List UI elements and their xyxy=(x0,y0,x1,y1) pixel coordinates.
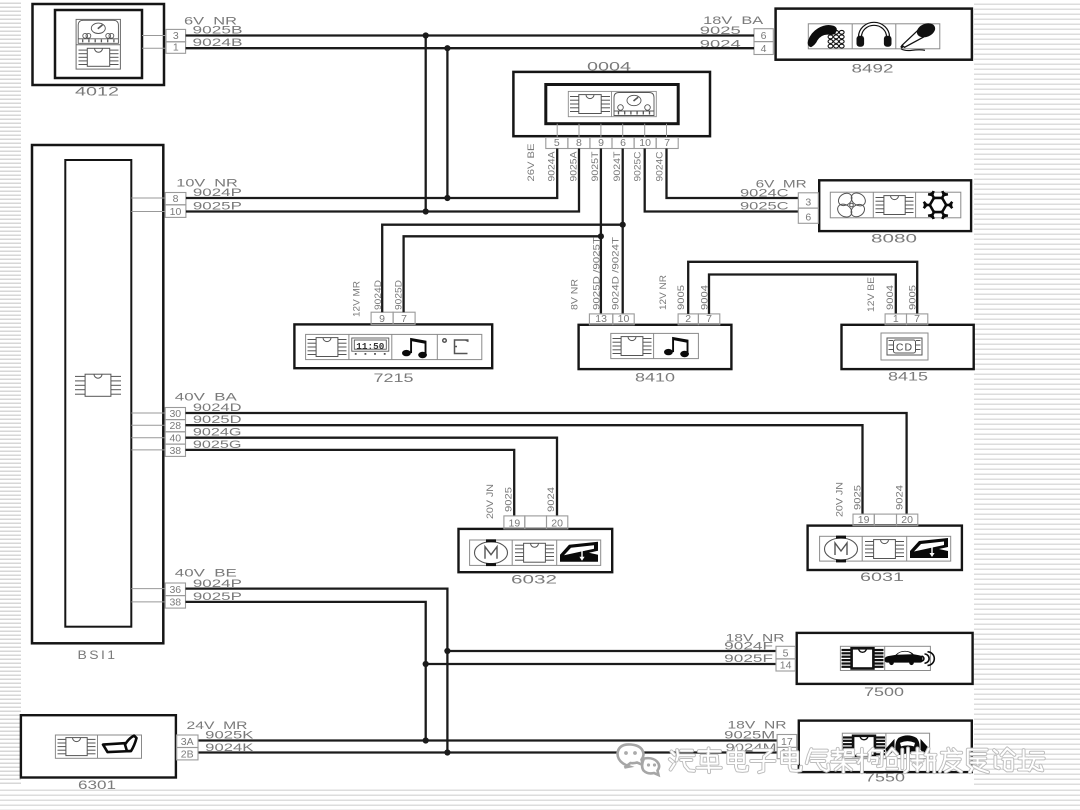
svg-text:40: 40 xyxy=(169,433,181,445)
pin stubs 0004 xyxy=(557,124,666,138)
junction dot xyxy=(423,661,429,667)
wire 7215 pin 7 to junction on 0004 pin9 line xyxy=(404,236,601,312)
svg-text:2B: 2B xyxy=(181,748,194,760)
svg-text:10: 10 xyxy=(170,206,182,218)
svg-text:6: 6 xyxy=(805,212,811,224)
junction dot xyxy=(620,222,626,228)
svg-text:9024K: 9024K xyxy=(205,742,254,754)
watermark text xyxy=(670,748,1044,772)
svg-text:9024C: 9024C xyxy=(654,151,665,181)
connector pins 9 and 7 of 7215 xyxy=(371,312,415,325)
wire 9024K 6301 pin 2B to 7550 pin 18 xyxy=(198,751,777,753)
connector pins 19 and 20 of 6032 xyxy=(504,516,568,529)
connector pins 1 and 7 of 8415 xyxy=(885,313,928,325)
watermark wechat logo xyxy=(618,744,660,775)
svg-text:4012: 4012 xyxy=(75,87,119,99)
component BSI1 body control unit xyxy=(32,145,163,662)
wire 9025K 6301 pin 3A to 7550 pin 17 xyxy=(198,739,777,741)
svg-text:4: 4 xyxy=(761,43,767,55)
wire 9025B from 4012 pin 3 to 8492 pin 6 xyxy=(186,34,754,36)
junction dot xyxy=(423,737,429,743)
svg-text:6: 6 xyxy=(620,137,626,149)
svg-text:9024C: 9024C xyxy=(740,187,789,199)
svg-text:6: 6 xyxy=(761,30,767,42)
connector pins 17 and 18 of 7550 xyxy=(777,735,797,760)
junction dot xyxy=(423,208,429,214)
svg-text:9024: 9024 xyxy=(546,487,557,512)
svg-text:12V NR: 12V NR xyxy=(658,275,669,310)
svg-text:10: 10 xyxy=(618,313,630,325)
wire 9024B from 4012 pin 1 to 8492 pin 4 xyxy=(186,47,754,49)
svg-text:8415: 8415 xyxy=(888,371,928,383)
svg-text:7: 7 xyxy=(401,313,407,325)
wire 9024G BSI pin 40 to 6032 pin 20 xyxy=(186,438,558,516)
svg-text:7550: 7550 xyxy=(865,773,905,785)
svg-text:9025C: 9025C xyxy=(740,201,789,213)
svg-text:9025T: 9025T xyxy=(590,151,601,181)
svg-text:9: 9 xyxy=(598,137,604,149)
svg-text:5: 5 xyxy=(554,137,560,149)
svg-text:28: 28 xyxy=(169,420,181,432)
svg-text:14: 14 xyxy=(780,659,792,671)
svg-text:9024F: 9024F xyxy=(724,640,773,652)
svg-text:3: 3 xyxy=(805,197,811,209)
junction dot xyxy=(423,32,429,38)
svg-text:9025K: 9025K xyxy=(205,730,254,742)
svg-text:13: 13 xyxy=(595,313,607,325)
component 6301 seat memory unit xyxy=(21,715,176,792)
component 6032 front window lifter xyxy=(459,529,613,586)
wire 9025F to 7500 pin 14 xyxy=(426,663,776,665)
svg-text:6301: 6301 xyxy=(78,780,116,792)
wire 0004 pin 6 to 8410 pin 10 xyxy=(622,149,624,314)
svg-text:9024D /9024T: 9024D /9024T xyxy=(611,237,622,310)
striped background bottom band xyxy=(0,786,1080,810)
svg-text:9025M: 9025M xyxy=(724,730,775,742)
svg-text:9004: 9004 xyxy=(885,285,896,310)
wire 9024P BSI pin 36 branch xyxy=(186,589,448,753)
pin stubs 4012 xyxy=(142,36,166,49)
wire 9024D BSI pin 30 to 6031 pin 20 xyxy=(186,413,907,514)
wire 9025P BSI pin 38 branch xyxy=(186,602,426,741)
connector pins 36 and 38 of BSI xyxy=(165,583,185,609)
svg-text:1: 1 xyxy=(893,313,899,325)
connector pins 5 and 14 of 7500 xyxy=(776,646,795,671)
svg-text:38: 38 xyxy=(169,445,181,457)
vertical wire 9024B branch xyxy=(446,48,448,198)
svg-text:9025F: 9025F xyxy=(724,653,773,665)
svg-text:20V JN: 20V JN xyxy=(834,482,845,517)
svg-text:2: 2 xyxy=(685,313,691,325)
wire 9024F to 7500 pin 5 xyxy=(447,650,776,652)
connector pins 3A and 2B of 6301 xyxy=(177,735,199,760)
svg-text:8492: 8492 xyxy=(852,63,894,75)
svg-text:8: 8 xyxy=(576,137,582,149)
svg-text:12V BE: 12V BE xyxy=(866,277,877,312)
svg-text:17: 17 xyxy=(781,736,793,748)
wire 9024C 0004 pin 7 to 8080 pin 3 xyxy=(667,149,799,199)
svg-text:9025C: 9025C xyxy=(633,151,644,181)
svg-text:9024: 9024 xyxy=(895,485,906,510)
svg-text:9025D /9025T: 9025D /9025T xyxy=(592,237,603,310)
connector pins 30 28 40 38 of BSI xyxy=(165,408,185,457)
vertical wire 9025B branch xyxy=(425,36,427,212)
svg-text:6031: 6031 xyxy=(860,572,904,584)
wire 9025P BSI pin 10 to 0004 pin 8 xyxy=(186,149,579,212)
wire 9004 8410 pin 7 to 8415 pin 1 xyxy=(709,275,896,314)
connector pins 5 8 9 6 10 7 of 0004 xyxy=(546,137,678,149)
svg-text:8410: 8410 xyxy=(635,372,675,384)
component 8410 radio xyxy=(579,325,732,385)
svg-text:8: 8 xyxy=(173,193,179,205)
connector pins 3 and 1 of 4012 xyxy=(166,29,186,53)
wire 9025C 0004 pin 10 to 8080 pin 6 xyxy=(645,149,799,212)
svg-text:6032: 6032 xyxy=(511,574,557,586)
wire 9025G BSI pin 38 to 6032 pin 19 xyxy=(186,450,515,516)
svg-text:19: 19 xyxy=(509,517,521,529)
wire 9005 8410 pin 2 to 8415 pin 7 xyxy=(688,262,917,314)
svg-text:7215: 7215 xyxy=(374,373,414,385)
svg-text:9025: 9025 xyxy=(503,487,514,512)
junction dot xyxy=(444,45,450,51)
connector pins 3 and 6 of 8080 xyxy=(798,193,818,224)
svg-text:26V BE: 26V BE xyxy=(526,144,537,182)
svg-text:9024T: 9024T xyxy=(612,151,623,181)
component 7500 central locking remote receiver xyxy=(797,633,973,699)
component 6031 front window lifter xyxy=(808,526,962,584)
svg-text:7: 7 xyxy=(664,137,670,149)
svg-text:9025: 9025 xyxy=(852,485,863,510)
svg-text:10: 10 xyxy=(639,137,651,149)
svg-text:38: 38 xyxy=(169,597,181,609)
svg-text:9025A: 9025A xyxy=(568,151,579,182)
svg-text:9005: 9005 xyxy=(908,285,919,310)
svg-text:8080: 8080 xyxy=(871,234,917,246)
connector pins 2 and 7 of 8410 xyxy=(678,313,720,325)
svg-text:1: 1 xyxy=(173,42,179,54)
component 0004 instrument cluster xyxy=(513,61,710,136)
junction dot xyxy=(444,195,450,201)
wire 0004 pin 9 to 8410 pin 13 xyxy=(600,149,602,314)
svg-text:CD: CD xyxy=(896,342,913,354)
svg-text:8V NR: 8V NR xyxy=(570,279,581,310)
component 8492 hands-free telephone xyxy=(776,9,972,76)
svg-text:7500: 7500 xyxy=(864,687,904,699)
component 7550 alarm system xyxy=(799,721,972,785)
svg-text:11:50: 11:50 xyxy=(356,341,384,352)
svg-text:9024A: 9024A xyxy=(547,151,558,182)
connector pins 6 and 4 of 8492 xyxy=(754,29,773,55)
component 8080 air conditioning xyxy=(819,180,971,245)
svg-text:0004: 0004 xyxy=(587,61,632,73)
striped background right band xyxy=(974,0,1080,810)
striped background left band xyxy=(0,0,21,810)
svg-text:9: 9 xyxy=(379,313,385,325)
svg-text:30: 30 xyxy=(169,408,181,420)
wire 7215 pin 9 to junction on 0004 pin6 line xyxy=(382,225,623,313)
svg-text:5: 5 xyxy=(783,647,789,659)
wire 9024P BSI pin 8 to 0004 pin 5 xyxy=(186,149,557,199)
svg-text:7: 7 xyxy=(706,313,712,325)
junction dot xyxy=(444,648,450,654)
connector pins 8 and 10 of BSI xyxy=(165,193,186,218)
svg-text:3: 3 xyxy=(173,30,179,42)
component 7215 multifunction clock display xyxy=(294,324,492,385)
connector pins 19 and 20 of 6031 xyxy=(853,514,918,526)
junction dot xyxy=(598,233,604,239)
svg-text:36: 36 xyxy=(169,584,181,596)
component 8415 CD changer xyxy=(842,325,974,384)
svg-text:3A: 3A xyxy=(181,736,194,748)
svg-text:19: 19 xyxy=(858,514,870,526)
svg-text:12V MR: 12V MR xyxy=(352,281,363,317)
connector pins 13 and 10 of 8410 xyxy=(589,313,634,325)
component 4012 multifunction display xyxy=(33,4,165,99)
svg-text:9005: 9005 xyxy=(676,285,687,310)
junction dot xyxy=(444,749,450,755)
svg-text:BSI1: BSI1 xyxy=(78,650,118,662)
pin stubs BSI xyxy=(131,198,165,602)
svg-text:7: 7 xyxy=(914,313,920,325)
svg-text:20: 20 xyxy=(901,514,913,526)
svg-text:20V JN: 20V JN xyxy=(485,484,496,519)
wire 9025D BSI pin 28 to 6031 pin 19 xyxy=(186,425,863,514)
svg-text:20: 20 xyxy=(551,517,563,529)
